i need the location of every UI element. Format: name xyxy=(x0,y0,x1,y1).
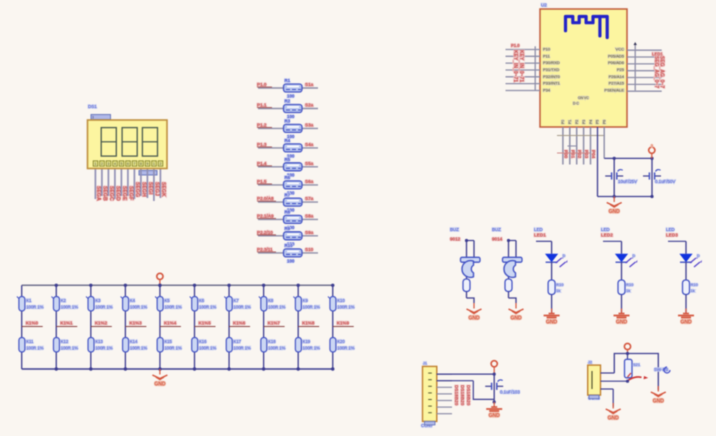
svg-text:P4: P4 xyxy=(589,120,593,124)
svg-text:GND: GND xyxy=(616,320,628,326)
svg-text:3: 3 xyxy=(92,116,94,120)
svg-text:10uF/25V: 10uF/25V xyxy=(618,179,637,184)
svg-text:100R 1%: 100R 1% xyxy=(268,346,286,351)
svg-text:D C: D C xyxy=(573,102,579,106)
svg-text:VCC: VCC xyxy=(616,47,625,52)
svg-text:1: 1 xyxy=(94,162,96,166)
svg-text:SEG_AG_0~7: SEG_AG_0~7 xyxy=(659,56,665,88)
svg-text:R10: R10 xyxy=(691,282,699,287)
svg-text:P1.2: P1.2 xyxy=(257,122,267,127)
svg-text:100R 1%: 100R 1% xyxy=(130,346,148,351)
svg-text:SEGD: SEGD xyxy=(115,186,121,201)
svg-text:R10: R10 xyxy=(556,282,564,287)
svg-text:K14: K14 xyxy=(130,339,138,344)
svg-text:100R 1%: 100R 1% xyxy=(95,305,113,310)
svg-text:DS18B20: DS18B20 xyxy=(466,385,471,406)
svg-text:P10: P10 xyxy=(543,47,551,52)
svg-text:100R 1%: 100R 1% xyxy=(61,346,79,351)
svg-text:K11: K11 xyxy=(26,339,34,344)
svg-text:P27/A15: P27/A15 xyxy=(609,81,625,86)
svg-text:GND: GND xyxy=(510,316,522,322)
svg-text:P00: P00 xyxy=(563,150,568,159)
svg-text:K1%6: K1%6 xyxy=(233,321,246,326)
svg-text:2: 2 xyxy=(101,162,103,166)
svg-text:R8: R8 xyxy=(285,210,291,215)
svg-text:GND: GND xyxy=(609,209,621,215)
svg-text:9: 9 xyxy=(146,162,148,166)
svg-text:100R 1%: 100R 1% xyxy=(61,305,79,310)
svg-text:SEGC: SEGC xyxy=(108,186,114,201)
svg-text:P1: P1 xyxy=(568,120,572,124)
svg-text:K4: K4 xyxy=(130,298,136,303)
svg-text:J1: J1 xyxy=(423,362,427,366)
svg-text:S2a: S2a xyxy=(305,103,314,108)
svg-text:LED: LED xyxy=(666,227,675,232)
svg-text:R6: R6 xyxy=(285,175,291,180)
svg-text:100: 100 xyxy=(287,258,295,263)
svg-text:SEGB: SEGB xyxy=(102,186,108,201)
svg-text:100R 1%: 100R 1% xyxy=(303,346,321,351)
svg-text:1k: 1k xyxy=(626,288,630,293)
svg-text:K19: K19 xyxy=(303,339,311,344)
svg-text:LED2: LED2 xyxy=(601,233,613,238)
svg-text:R3: R3 xyxy=(285,119,291,124)
svg-text:100R 1%: 100R 1% xyxy=(234,305,252,310)
svg-text:SEGJ: SEGJ xyxy=(154,182,160,196)
svg-text:BUZ: BUZ xyxy=(492,227,501,232)
svg-text:P1.4: P1.4 xyxy=(257,161,267,166)
svg-text:100R 1%: 100R 1% xyxy=(199,346,217,351)
svg-text:GND: GND xyxy=(154,382,166,388)
svg-text:P1.5: P1.5 xyxy=(257,179,267,184)
svg-text:U2: U2 xyxy=(541,3,547,8)
svg-text:P3: P3 xyxy=(582,120,586,124)
svg-text:3: 3 xyxy=(107,162,109,166)
svg-text:P05/AD5: P05/AD5 xyxy=(608,53,625,58)
svg-text:100R 1%: 100R 1% xyxy=(199,305,217,310)
svg-text:P0: P0 xyxy=(561,120,565,124)
svg-text:100R 1%: 100R 1% xyxy=(337,346,355,351)
svg-text:7: 7 xyxy=(133,162,135,166)
svg-text:P02: P02 xyxy=(577,150,582,159)
svg-text:R5: R5 xyxy=(285,157,291,162)
svg-text:LED: LED xyxy=(534,227,543,232)
svg-text:R4: R4 xyxy=(285,138,291,143)
svg-text:K1%4: K1%4 xyxy=(164,321,177,326)
svg-text:DS18B20: DS18B20 xyxy=(460,385,465,406)
svg-text:K1%3: K1%3 xyxy=(129,321,142,326)
svg-text:KEY_IN_0~71: KEY_IN_0~71 xyxy=(518,50,524,82)
svg-text:K1: K1 xyxy=(26,298,32,303)
svg-text:KEY_IN_0~71: KEY_IN_0~71 xyxy=(512,50,518,82)
svg-text:K1%7: K1%7 xyxy=(268,321,281,326)
svg-text:6: 6 xyxy=(127,162,129,166)
svg-text:P25: P25 xyxy=(617,67,625,72)
svg-text:SEGI: SEGI xyxy=(147,182,153,195)
svg-text:GND: GND xyxy=(680,320,692,326)
svg-text:P34: P34 xyxy=(543,87,551,92)
svg-text:K8: K8 xyxy=(268,298,274,303)
svg-text:K18: K18 xyxy=(268,339,276,344)
svg-text:SEG_AG_0~7: SEG_AG_0~7 xyxy=(653,56,659,88)
svg-text:P33/INT1: P33/INT1 xyxy=(543,81,561,86)
svg-text:P06/AD6: P06/AD6 xyxy=(608,60,625,65)
svg-text:S6a: S6a xyxy=(305,179,314,184)
svg-text:P04: P04 xyxy=(591,150,596,159)
svg-text:100R 1%: 100R 1% xyxy=(164,346,182,351)
svg-text:R7: R7 xyxy=(285,192,291,197)
svg-text:LED3: LED3 xyxy=(666,233,678,238)
svg-text:GND: GND xyxy=(608,416,620,422)
svg-text:0.1uF/103: 0.1uF/103 xyxy=(500,390,520,395)
svg-text:K1%2: K1%2 xyxy=(95,321,108,326)
svg-text:R1: R1 xyxy=(285,78,291,83)
svg-text:P1.3: P1.3 xyxy=(257,142,267,147)
svg-text:K16: K16 xyxy=(199,339,207,344)
svg-text:P2: P2 xyxy=(575,120,579,124)
svg-text:K6: K6 xyxy=(199,298,205,303)
svg-text:K10: K10 xyxy=(337,298,345,303)
svg-text:S3a: S3a xyxy=(305,122,314,127)
svg-text:DS18B20: DS18B20 xyxy=(454,385,459,406)
svg-text:K5: K5 xyxy=(164,298,170,303)
svg-text:P5: P5 xyxy=(596,120,600,124)
svg-text:S4a: S4a xyxy=(305,142,314,147)
svg-text:D: D xyxy=(697,254,700,258)
svg-text:P1.1: P1.1 xyxy=(257,103,267,108)
svg-text:LED: LED xyxy=(601,227,610,232)
svg-text:2: 2 xyxy=(159,162,161,166)
svg-text:K1%1: K1%1 xyxy=(60,321,73,326)
svg-text:K15: K15 xyxy=(164,339,172,344)
svg-text:P6: P6 xyxy=(603,120,607,124)
svg-text:S10: S10 xyxy=(305,247,314,252)
svg-text:LED1: LED1 xyxy=(534,233,546,238)
svg-text:GND: GND xyxy=(489,413,501,419)
svg-text:1k: 1k xyxy=(556,288,560,293)
svg-text:SEGE: SEGE xyxy=(121,186,127,201)
svg-text:GN VC: GN VC xyxy=(578,96,589,100)
svg-text:P30/RXD: P30/RXD xyxy=(543,60,560,65)
svg-text:3: 3 xyxy=(651,144,653,148)
svg-text:P03: P03 xyxy=(584,150,589,159)
svg-text:100R 1%: 100R 1% xyxy=(268,305,286,310)
svg-text:9012: 9012 xyxy=(450,237,461,242)
svg-text:K20: K20 xyxy=(337,339,345,344)
svg-text:SW-PB: SW-PB xyxy=(654,367,668,372)
svg-text:S5a: S5a xyxy=(305,161,314,166)
svg-text:100R 1%: 100R 1% xyxy=(26,346,44,351)
svg-text:S21: S21 xyxy=(633,362,641,367)
svg-text:100R 1%: 100R 1% xyxy=(26,305,44,310)
svg-text:D: D xyxy=(633,254,636,258)
svg-text:K1%5: K1%5 xyxy=(199,321,212,326)
svg-text:D: D xyxy=(563,254,566,258)
svg-text:SEGK: SEGK xyxy=(160,182,166,197)
svg-text:K13: K13 xyxy=(95,339,103,344)
svg-text:GND: GND xyxy=(468,316,480,322)
svg-text:SEGA: SEGA xyxy=(95,186,101,201)
svg-text:P2.1/A9: P2.1/A9 xyxy=(257,213,274,218)
svg-text:8: 8 xyxy=(140,162,142,166)
svg-text:PSEN/ALE: PSEN/ALE xyxy=(604,87,624,92)
svg-text:P2.0/A8: P2.0/A8 xyxy=(257,196,274,201)
svg-text:9014: 9014 xyxy=(492,237,503,242)
svg-text:K9: K9 xyxy=(303,298,309,303)
svg-text:S9a: S9a xyxy=(305,230,314,235)
svg-text:K3: K3 xyxy=(95,298,101,303)
svg-text:SEGF: SEGF xyxy=(128,186,134,200)
svg-text:100R 1%: 100R 1% xyxy=(303,305,321,310)
svg-text:K1%0: K1%0 xyxy=(26,321,39,326)
svg-text:R2: R2 xyxy=(285,99,291,104)
svg-text:P26/A14: P26/A14 xyxy=(609,74,625,79)
svg-text:4: 4 xyxy=(114,162,116,166)
svg-text:100R 1%: 100R 1% xyxy=(130,305,148,310)
svg-text:R9: R9 xyxy=(285,226,291,231)
svg-text:GND: GND xyxy=(653,399,665,405)
svg-text:P31/TXD: P31/TXD xyxy=(543,67,559,72)
svg-text:100R 1%: 100R 1% xyxy=(164,305,182,310)
svg-text:SEGG: SEGG xyxy=(134,182,140,197)
svg-text:S1a: S1a xyxy=(305,82,314,87)
svg-text:GND: GND xyxy=(546,320,558,326)
svg-text:1k: 1k xyxy=(691,288,695,293)
svg-text:K12: K12 xyxy=(61,339,69,344)
svg-text:K2: K2 xyxy=(61,298,67,303)
svg-text:P11: P11 xyxy=(543,53,551,58)
svg-text:P2.2/10: P2.2/10 xyxy=(257,230,273,235)
svg-text:0.1uF/50V: 0.1uF/50V xyxy=(655,179,675,184)
svg-text:K1%8: K1%8 xyxy=(302,321,315,326)
svg-text:K7: K7 xyxy=(234,298,240,303)
svg-text:P01: P01 xyxy=(570,150,575,159)
svg-text:BUZ: BUZ xyxy=(450,227,459,232)
svg-text:P2.3/11: P2.3/11 xyxy=(257,247,273,252)
svg-text:K1%9: K1%9 xyxy=(337,321,350,326)
svg-text:R10: R10 xyxy=(626,282,634,287)
svg-text:P32/INT0: P32/INT0 xyxy=(543,74,561,79)
svg-text:P1.0: P1.0 xyxy=(257,82,267,87)
svg-text:1: 1 xyxy=(153,162,155,166)
svg-text:J2: J2 xyxy=(588,361,592,365)
svg-text:100R 1%: 100R 1% xyxy=(337,305,355,310)
svg-text:R10: R10 xyxy=(285,243,294,248)
svg-text:5: 5 xyxy=(120,162,122,166)
svg-text:K17: K17 xyxy=(234,339,242,344)
svg-text:S8a: S8a xyxy=(305,213,314,218)
svg-text:DS1: DS1 xyxy=(88,104,97,109)
svg-text:P1.0: P1.0 xyxy=(511,43,520,48)
svg-text:S7a: S7a xyxy=(305,196,314,201)
svg-text:100R 1%: 100R 1% xyxy=(95,346,113,351)
svg-text:100R 1%: 100R 1% xyxy=(234,346,252,351)
svg-text:SEGH: SEGH xyxy=(141,182,147,197)
